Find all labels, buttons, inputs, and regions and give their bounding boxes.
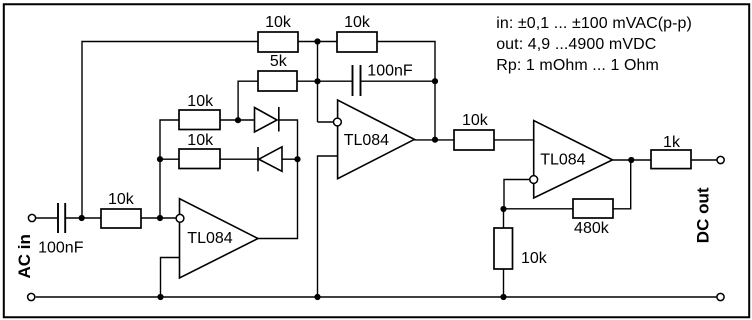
svg-text:10k: 10k <box>265 14 292 31</box>
svg-text:TL084: TL084 <box>344 132 389 149</box>
svg-text:10k: 10k <box>344 14 371 31</box>
svg-text:in: ±0,1 ... ±100 mVAC(p-p): in: ±0,1 ... ±100 mVAC(p-p) <box>496 15 692 32</box>
svg-text:1k: 1k <box>663 134 681 151</box>
svg-text:480k: 480k <box>574 220 610 237</box>
svg-text:TL084: TL084 <box>540 152 585 169</box>
svg-text:out: 4,9 ...4900 mVDC: out: 4,9 ...4900 mVDC <box>496 36 656 53</box>
svg-text:10k: 10k <box>187 93 214 110</box>
svg-text:10k: 10k <box>108 191 135 208</box>
svg-text:10k: 10k <box>187 132 214 149</box>
svg-text:10k: 10k <box>521 250 548 267</box>
svg-text:Rp: 1 mOhm ... 1 Ohm: Rp: 1 mOhm ... 1 Ohm <box>496 57 659 74</box>
svg-text:5k: 5k <box>270 53 288 70</box>
svg-text:AC in: AC in <box>15 234 34 278</box>
svg-text:100nF: 100nF <box>367 63 413 80</box>
svg-text:DC out: DC out <box>694 187 713 243</box>
svg-text:100nF: 100nF <box>38 239 84 256</box>
svg-text:TL084: TL084 <box>187 230 232 247</box>
svg-text:10k: 10k <box>462 112 489 129</box>
